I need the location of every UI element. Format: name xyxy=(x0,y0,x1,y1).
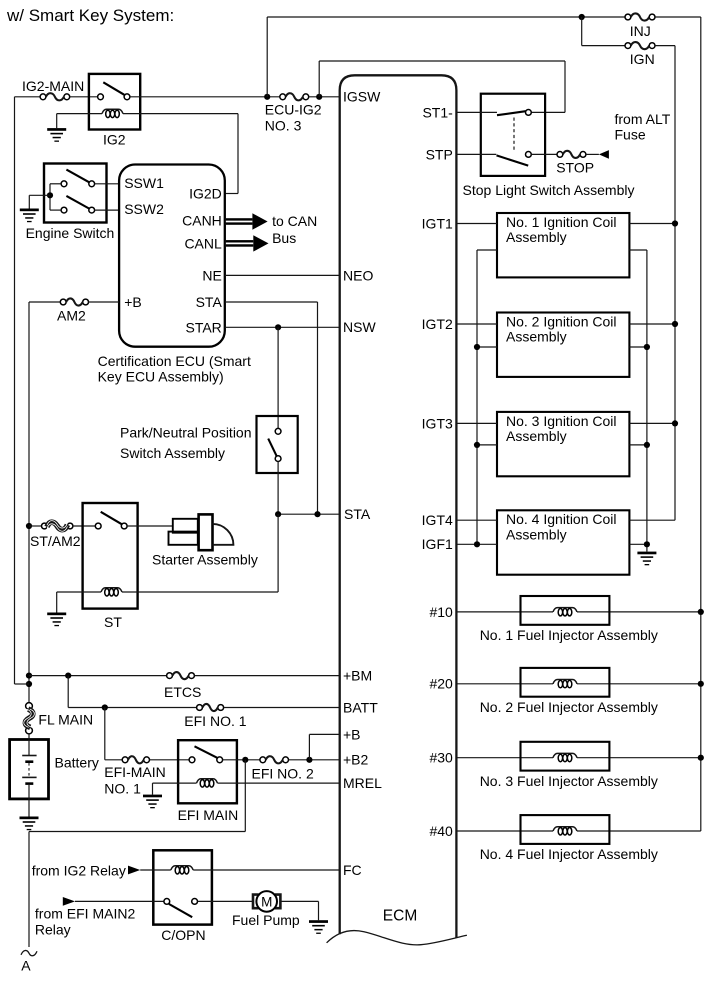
svg-text:EFI-MAIN: EFI-MAIN xyxy=(104,764,165,780)
svg-text:Assembly: Assembly xyxy=(506,428,567,444)
svg-text:EFI MAIN: EFI MAIN xyxy=(178,807,239,823)
svg-text:NO. 3: NO. 3 xyxy=(265,118,302,134)
svg-text:STA: STA xyxy=(344,506,371,522)
svg-text:Relay: Relay xyxy=(35,922,71,938)
svg-text:STA: STA xyxy=(196,294,223,310)
svg-text:ECU-IG2: ECU-IG2 xyxy=(265,102,322,118)
svg-text:STP: STP xyxy=(426,146,453,162)
svg-text:ETCS: ETCS xyxy=(164,684,201,700)
svg-text:+B: +B xyxy=(124,294,142,310)
svg-text:CANL: CANL xyxy=(184,235,222,251)
svg-text:IGSW: IGSW xyxy=(343,89,381,105)
svg-text:SSW2: SSW2 xyxy=(124,201,164,217)
svg-text:+B2: +B2 xyxy=(343,752,369,768)
svg-text:No. 3 Ignition Coil: No. 3 Ignition Coil xyxy=(506,413,617,429)
svg-text:#40: #40 xyxy=(429,823,453,839)
svg-text:IGT3: IGT3 xyxy=(422,415,453,431)
svg-text:ST: ST xyxy=(104,614,122,630)
svg-text:from EFI MAIN2: from EFI MAIN2 xyxy=(35,906,136,922)
svg-text:ST/AM2: ST/AM2 xyxy=(30,533,81,549)
svg-text:SSW1: SSW1 xyxy=(124,175,164,191)
svg-text:Starter Assembly: Starter Assembly xyxy=(152,552,258,568)
svg-text:NEO: NEO xyxy=(343,267,373,283)
svg-text:IGT1: IGT1 xyxy=(422,215,453,231)
svg-text:INJ: INJ xyxy=(630,23,651,39)
svg-text:BATT: BATT xyxy=(343,699,378,715)
svg-text:No. 1 Fuel Injector Assembly: No. 1 Fuel Injector Assembly xyxy=(480,627,658,643)
svg-text:IG2D: IG2D xyxy=(189,185,222,201)
svg-text:EFI NO. 2: EFI NO. 2 xyxy=(252,765,314,781)
svg-text:Engine Switch: Engine Switch xyxy=(26,225,115,241)
svg-text:IGT4: IGT4 xyxy=(422,512,453,528)
svg-text:from ALT: from ALT xyxy=(615,111,671,127)
svg-text:Stop Light Switch Assembly: Stop Light Switch Assembly xyxy=(463,182,635,198)
svg-text:IGT2: IGT2 xyxy=(422,316,453,332)
svg-text:IGN: IGN xyxy=(630,51,655,67)
svg-text:NO. 1: NO. 1 xyxy=(104,780,141,796)
svg-text:CANH: CANH xyxy=(182,213,222,229)
svg-text:No. 2 Fuel Injector Assembly: No. 2 Fuel Injector Assembly xyxy=(480,699,658,715)
svg-text:IGF1: IGF1 xyxy=(422,536,453,552)
svg-text:IG2-MAIN: IG2-MAIN xyxy=(22,78,84,94)
svg-text:Switch Assembly: Switch Assembly xyxy=(120,445,225,461)
svg-text:C/OPN: C/OPN xyxy=(161,927,205,943)
svg-text:Bus: Bus xyxy=(272,230,296,246)
svg-text:Battery: Battery xyxy=(55,755,99,771)
svg-text:A: A xyxy=(21,958,31,974)
svg-text:ECM: ECM xyxy=(383,907,417,924)
svg-text:Fuse: Fuse xyxy=(615,127,646,143)
svg-text:No. 4 Fuel Injector Assembly: No. 4 Fuel Injector Assembly xyxy=(480,846,658,862)
svg-text:M: M xyxy=(261,894,272,909)
svg-text:Park/Neutral Position: Park/Neutral Position xyxy=(120,425,252,441)
svg-text:#20: #20 xyxy=(429,676,453,692)
svg-text:IG2: IG2 xyxy=(103,132,126,148)
svg-text:No. 3 Fuel Injector Assembly: No. 3 Fuel Injector Assembly xyxy=(480,773,658,789)
svg-text:FC: FC xyxy=(343,862,362,878)
svg-text:STOP: STOP xyxy=(556,160,594,176)
svg-text:from IG2 Relay: from IG2 Relay xyxy=(32,862,126,878)
svg-text:Assembly: Assembly xyxy=(506,229,567,245)
svg-text:Fuel Pump: Fuel Pump xyxy=(232,912,300,928)
svg-text:Key ECU Assembly): Key ECU Assembly) xyxy=(98,369,224,385)
svg-text:AM2: AM2 xyxy=(57,307,86,323)
svg-text:FL MAIN: FL MAIN xyxy=(38,712,93,728)
svg-text:NSW: NSW xyxy=(343,319,376,335)
svg-text:EFI NO. 1: EFI NO. 1 xyxy=(184,713,246,729)
svg-text:No. 1 Ignition Coil: No. 1 Ignition Coil xyxy=(506,214,617,230)
svg-text:No. 4 Ignition Coil: No. 4 Ignition Coil xyxy=(506,511,617,527)
svg-text:w/ Smart Key System:: w/ Smart Key System: xyxy=(6,6,174,25)
svg-text:to CAN: to CAN xyxy=(272,213,317,229)
svg-text:NE: NE xyxy=(202,267,221,283)
svg-text:MREL: MREL xyxy=(343,775,382,791)
svg-text:#10: #10 xyxy=(429,604,453,620)
svg-text:#30: #30 xyxy=(429,750,453,766)
svg-text:Certification ECU (Smart: Certification ECU (Smart xyxy=(98,353,251,369)
svg-text:STAR: STAR xyxy=(185,319,221,335)
svg-text:Assembly: Assembly xyxy=(506,527,567,543)
svg-text:ST1-: ST1- xyxy=(422,104,453,120)
svg-text:+BM: +BM xyxy=(343,668,372,684)
svg-text:No. 2 Ignition Coil: No. 2 Ignition Coil xyxy=(506,313,617,329)
svg-text:+B: +B xyxy=(343,726,361,742)
svg-text:Assembly: Assembly xyxy=(506,329,567,345)
